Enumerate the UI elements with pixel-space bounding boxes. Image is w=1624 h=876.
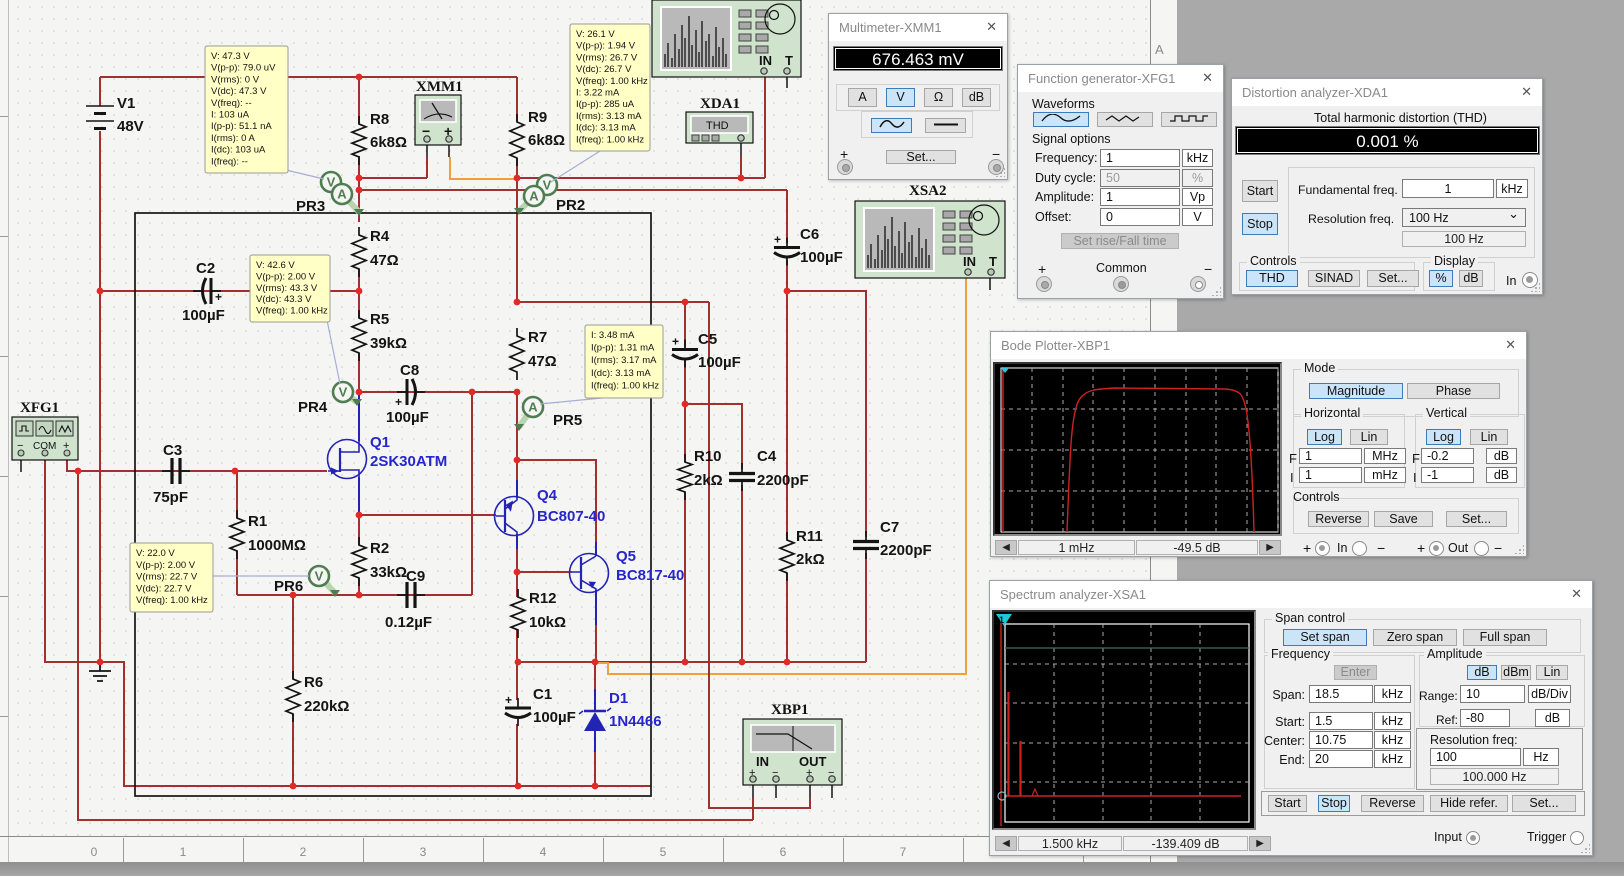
zone label A [1155, 42, 1164, 57]
svg-text:+: + [395, 395, 402, 409]
wire R11 bottom [786, 573, 788, 662]
svg-text:T: T [989, 254, 997, 269]
svg-text:V: V [339, 385, 348, 400]
black boundary box [135, 213, 651, 796]
capacitor C4 [729, 448, 809, 491]
wire D1 top [594, 662, 596, 689]
svg-text:2kΩ: 2kΩ [694, 472, 723, 489]
wire R6 top [292, 595, 294, 679]
svg-text:BC807-40: BC807-40 [537, 508, 605, 525]
svg-text:R7: R7 [528, 329, 547, 346]
svg-text:6k8Ω: 6k8Ω [370, 134, 407, 151]
wire R9 bottom / PR2 drop [516, 158, 518, 302]
svg-text:R6: R6 [304, 674, 323, 691]
bottom scrollbar strip [0, 862, 1624, 876]
junction (518,786) [515, 783, 522, 790]
wire R4 bottom to R5 [358, 269, 360, 318]
wire Q4 to R12 [516, 549, 518, 597]
svg-text:XDA1: XDA1 [700, 96, 740, 112]
junction (293,595) [290, 592, 297, 599]
wire C4 bottom [741, 485, 743, 662]
svg-text:+: + [215, 290, 222, 304]
junction (359,190) [356, 187, 363, 194]
svg-text:C9: C9 [406, 568, 425, 585]
svg-text:XFG1: XFG1 [20, 400, 59, 416]
svg-text:Q4: Q4 [537, 487, 558, 504]
wire XMM1 plus orange [450, 157, 517, 179]
wire XBP1 IN drop [752, 798, 754, 820]
wire XBP1 OUT- stub [831, 785, 833, 798]
wire C5 bottom [684, 360, 686, 404]
wire XDA1 stub [740, 141, 742, 156]
svg-text:V(rms): 26.7 V: V(rms): 26.7 V [576, 52, 638, 63]
svg-text:IN: IN [759, 53, 772, 68]
svg-text:47Ω: 47Ω [370, 252, 399, 269]
wire XBP1 IN feed [78, 471, 753, 820]
svg-text:R9: R9 [528, 109, 547, 126]
ground symbol [89, 662, 111, 681]
svg-text:1N4466: 1N4466 [609, 713, 662, 730]
svg-text:C1: C1 [533, 686, 552, 703]
svg-text:I: 3.48 mA: I: 3.48 mA [591, 330, 635, 341]
probe PR3 [296, 172, 364, 216]
svg-text:100µF: 100µF [800, 249, 843, 266]
junction (517,302) [514, 299, 521, 306]
capacitor C5 [672, 331, 741, 371]
wire R12 bottom [516, 630, 518, 662]
resistor R5 [352, 310, 407, 361]
junction (359,595) [356, 592, 363, 599]
schematic sheet [0, 0, 1177, 862]
wire R8 bottom to R4 top [358, 156, 360, 222]
wire C7 bottom [865, 553, 867, 662]
svg-text:2kΩ: 2kΩ [796, 551, 825, 568]
wire Q5 collector lead [595, 542, 597, 556]
resistor R11 [780, 528, 825, 581]
wire R9 top [516, 77, 518, 122]
probe PR6 [274, 566, 340, 597]
wire node XMM- line [359, 177, 427, 179]
junction (359,392) [356, 389, 363, 396]
junction (787,662) [784, 659, 791, 666]
junction (100,662) [97, 659, 104, 666]
svg-text:THD: THD [706, 120, 729, 132]
svg-text:R8: R8 [370, 111, 389, 128]
svg-text:V(rms): 22.7 V: V(rms): 22.7 V [136, 572, 198, 583]
svg-text:IN: IN [756, 754, 769, 769]
junction (517,460) [514, 457, 521, 464]
measurement tooltip PR4 [250, 255, 330, 322]
svg-text:T: T [785, 53, 793, 68]
wire stub [786, 242, 788, 244]
svg-text:A: A [529, 189, 539, 204]
window Multimeter-XMM1 [828, 13, 1008, 180]
resistor R8 [352, 111, 407, 165]
probe PR4 [298, 382, 362, 416]
wire XFG1 COM to ground [45, 455, 100, 662]
svg-text:C8: C8 [400, 362, 419, 379]
wire C8 line [359, 391, 517, 393]
transistor Q5 BC817-40 (NPN) [570, 548, 685, 593]
svg-text:V(dc): 22.7 V: V(dc): 22.7 V [136, 583, 192, 594]
resistor R12 [511, 589, 566, 638]
wire R1 bottom [236, 551, 238, 595]
wire node to XDA1/XSA1 [517, 177, 765, 179]
capacitor C6 [774, 226, 843, 266]
svg-text:I(rms): 0 A: I(rms): 0 A [211, 133, 255, 144]
wire XMM1 minus drop [426, 157, 428, 178]
junction (517,392) [514, 389, 521, 396]
svg-text:PR3: PR3 [296, 198, 325, 215]
svg-text:V(p-p): 2.00 V: V(p-p): 2.00 V [256, 271, 316, 282]
svg-text:39kΩ: 39kΩ [370, 335, 407, 352]
svg-text:A: A [528, 400, 538, 415]
wire C9 line [237, 594, 472, 596]
svg-text:PR6: PR6 [274, 578, 303, 595]
svg-text:I: 3.22 mA: I: 3.22 mA [576, 88, 620, 99]
measurement tooltip PR3 [205, 46, 288, 173]
svg-text:V1: V1 [117, 95, 135, 112]
wire Q1 drain [358, 392, 360, 441]
wire C4 top link [685, 404, 742, 469]
wire XSA1 IN drop [764, 77, 766, 178]
svg-text:I(p-p): 1.31 mA: I(p-p): 1.31 mA [591, 343, 655, 354]
tooltip connector PR5 [540, 397, 612, 404]
resistor R9 [510, 109, 565, 166]
instrument icon XMM1 [415, 95, 461, 145]
wire R6 bottom [292, 714, 294, 786]
window Function generator-XFG1 [1017, 64, 1224, 299]
svg-text:I(freq): 1.00 kHz: I(freq): 1.00 kHz [591, 380, 659, 391]
svg-text:V(freq): --: V(freq): -- [211, 98, 252, 109]
svg-text:XSA2: XSA2 [909, 183, 947, 199]
wire ground rail bottom [100, 662, 651, 786]
svg-text:I(freq): 1.00 kHz: I(freq): 1.00 kHz [576, 134, 644, 145]
junction (685,662) [682, 659, 689, 666]
svg-text:I(p-p): 285 uA: I(p-p): 285 uA [576, 99, 635, 110]
wire C5 top [684, 302, 686, 347]
wire XSA1 IN stub [764, 74, 766, 77]
junction (685,404) [682, 401, 689, 408]
svg-text:0.12µF: 0.12µF [385, 614, 432, 631]
svg-text:PR4: PR4 [298, 399, 328, 416]
junction (685,302) [682, 299, 689, 306]
svg-text:+: + [774, 233, 781, 247]
svg-text:R11: R11 [796, 528, 823, 545]
svg-text:V(dc): 43.3 V: V(dc): 43.3 V [256, 294, 312, 305]
capacitor C9 [385, 568, 432, 631]
svg-text:V(p-p): 1.94 V: V(p-p): 1.94 V [576, 41, 636, 52]
svg-text:PR5: PR5 [553, 412, 582, 429]
svg-text:10kΩ: 10kΩ [529, 614, 566, 631]
wire C6 top lead [786, 190, 788, 243]
svg-text:R5: R5 [370, 311, 389, 328]
svg-text:100µF: 100µF [533, 709, 576, 726]
wire C2 line [100, 290, 359, 292]
instrument icon XSA2 icon [855, 201, 1005, 278]
junction (78,471) [75, 468, 82, 475]
svg-text:D1: D1 [609, 690, 628, 707]
capacitor C2 [182, 260, 225, 324]
svg-text:V(dc): 26.7 V: V(dc): 26.7 V [576, 64, 632, 75]
junction (742,662) [739, 659, 746, 666]
svg-text:V: V [315, 569, 324, 584]
wire XSA2 IN orange [597, 276, 966, 674]
probe PR2 [514, 175, 585, 215]
diode D1 1N4466 [579, 690, 662, 731]
measurement tooltip PR6 [130, 543, 213, 612]
resistor R4 [352, 227, 399, 277]
svg-text:C2: C2 [196, 260, 215, 277]
svg-text:A: A [337, 187, 347, 202]
tooltip connector PR2 [551, 151, 600, 182]
svg-text:2200pF: 2200pF [757, 472, 809, 489]
wire D1 bottom [594, 752, 596, 786]
svg-text:I(freq): --: I(freq): -- [211, 156, 248, 167]
svg-text:V(p-p): 79.0 uV: V(p-p): 79.0 uV [211, 63, 276, 74]
wire XBP1 OUT+ stub [809, 785, 811, 798]
svg-text:XBP1: XBP1 [771, 702, 809, 718]
junction (595,786) [592, 783, 599, 790]
svg-text:100µF: 100µF [386, 409, 429, 426]
svg-text:48V: 48V [117, 118, 144, 135]
resistor R1 [230, 510, 306, 559]
svg-text:2200pF: 2200pF [880, 542, 932, 559]
wire C3 input line [78, 470, 327, 472]
svg-text:R4: R4 [370, 228, 390, 245]
wire R11 top [786, 291, 788, 540]
tooltip connector PR6 [213, 575, 309, 577]
wire XBP1 IN+ stub [752, 785, 754, 798]
wire PR5 drop to Q4 [516, 392, 518, 480]
svg-text:V: 26.1 V: V: 26.1 V [576, 29, 615, 40]
svg-text:Q1: Q1 [370, 434, 390, 451]
svg-text:I(dc): 103 uA: I(dc): 103 uA [211, 145, 266, 156]
junction (741,178) [738, 175, 745, 182]
wire Q5 collector link [517, 460, 596, 542]
wire R1 top [236, 471, 238, 518]
svg-text:1: 1 [999, 615, 1004, 625]
svg-text:PR2: PR2 [556, 197, 585, 214]
wire Q5 base line [517, 571, 572, 573]
wire V+ top rail [100, 76, 517, 78]
junction (517,178) [514, 175, 521, 182]
svg-text:100µF: 100µF [698, 354, 741, 371]
svg-text:I(dc): 3.13 mA: I(dc): 3.13 mA [591, 368, 651, 379]
wire battery top lead [99, 77, 101, 106]
wire R8 top [358, 77, 360, 124]
svg-text:R12: R12 [529, 590, 557, 607]
resistor R10 [678, 448, 723, 500]
junction (235,471) [232, 468, 239, 475]
junction (359,515) [356, 512, 363, 519]
svg-text:I(rms): 3.17 mA: I(rms): 3.17 mA [591, 355, 657, 366]
wire Q4 base line [359, 514, 496, 516]
junction (595,662) [592, 659, 599, 666]
wire XMM1 plus stub [448, 142, 450, 157]
battery V1 48V [86, 95, 144, 135]
svg-text:R2: R2 [370, 540, 389, 557]
resistor R2 [352, 537, 407, 586]
svg-text:XMM1: XMM1 [416, 79, 463, 95]
svg-text:+: + [505, 693, 512, 707]
transistor Q1 2SK30ATM (JFET) [328, 434, 448, 479]
svg-text:V(freq): 1.00 kHz: V(freq): 1.00 kHz [136, 595, 208, 606]
wire C1 bottom [516, 724, 518, 786]
wire D1 top blue [594, 689, 596, 711]
instrument icon XSA1 icon [652, 0, 801, 77]
svg-text:220kΩ: 220kΩ [304, 698, 349, 715]
svg-text:6k8Ω: 6k8Ω [528, 132, 565, 149]
wire C8-C9 link [471, 392, 473, 595]
wire C7 top link [787, 291, 866, 537]
wire R2 top [358, 515, 360, 545]
svg-text:V(freq): 1.00 kHz: V(freq): 1.00 kHz [256, 306, 328, 317]
junction (787,291) [784, 288, 791, 295]
junction (293,786) [290, 783, 297, 790]
junction (517,572) [514, 569, 521, 576]
svg-text:Q5: Q5 [616, 548, 636, 565]
svg-text:R10: R10 [694, 448, 722, 465]
measurement tooltip PR2 [570, 24, 650, 151]
capacitor C8 [386, 362, 429, 426]
svg-text:IN: IN [963, 254, 976, 269]
transistor Q4 BC807-40 (PNP) [495, 487, 606, 536]
svg-text:R1: R1 [248, 513, 267, 530]
svg-text:I(rms): 3.13 mA: I(rms): 3.13 mA [576, 111, 642, 122]
junction (518,662) [515, 659, 522, 666]
svg-text:V: 47.3 V: V: 47.3 V [211, 51, 250, 62]
wire XDA1 drop [740, 156, 742, 178]
svg-text:1000MΩ: 1000MΩ [248, 537, 306, 554]
svg-text:V(freq): 1.00 kHz: V(freq): 1.00 kHz [576, 76, 648, 87]
junction (472,392) [469, 389, 476, 396]
window Spectrum analyzer-XSA1 [989, 580, 1593, 856]
svg-text:V(dc): 47.3 V: V(dc): 47.3 V [211, 86, 267, 97]
tooltip connector PR4 [327, 320, 340, 384]
svg-text:I(p-p): 51.1 nA: I(p-p): 51.1 nA [211, 121, 272, 132]
resistor R6 [286, 671, 349, 722]
wire Q5 emitter to rail [595, 625, 597, 662]
wire XFG1 minus stub [20, 455, 22, 472]
svg-text:V(rms): 43.3 V: V(rms): 43.3 V [256, 283, 318, 294]
svg-text:I: 103 uA: I: 103 uA [211, 110, 250, 121]
wire XMM1 minus stub [426, 142, 428, 157]
svg-text:C3: C3 [163, 442, 182, 459]
window Distortion analyzer-XDA1 [1231, 78, 1543, 295]
wire R10 bottom [684, 492, 686, 662]
wire C6 bottom [786, 260, 788, 291]
window Bode Plotter-XBP1 [990, 331, 1527, 557]
svg-text:OUT: OUT [799, 754, 827, 769]
svg-text:I(dc): 3.13 mA: I(dc): 3.13 mA [576, 123, 636, 134]
wire output node line [517, 301, 709, 303]
wire R2 bottom [358, 578, 360, 595]
junction (359,291) [356, 288, 363, 295]
svg-text:V: V [543, 178, 552, 193]
svg-text:C7: C7 [880, 519, 899, 536]
capacitor C1 [505, 686, 576, 726]
junction (359,77) [356, 74, 363, 81]
capacitor C3 [153, 442, 190, 506]
wire Q4 collector lead [516, 534, 518, 549]
wire XBP1 OUT feed [709, 302, 810, 808]
wire XSA1 T stub [786, 74, 788, 88]
svg-text:100µF: 100µF [182, 307, 225, 324]
svg-text:V(rms): 0 V: V(rms): 0 V [211, 74, 260, 85]
wire D1 bottom blue [594, 731, 596, 752]
measurement tooltip PR5 [585, 325, 663, 398]
wire mid rail [518, 661, 866, 663]
instrument icon XFG1 [12, 417, 78, 460]
wire battery negative down [99, 131, 101, 662]
svg-text:33kΩ: 33kΩ [370, 564, 407, 581]
instrument icon XDA1 [686, 112, 753, 143]
wire R10 top [684, 404, 686, 462]
wire XSA2 T stub [989, 276, 991, 290]
junction (100,291) [97, 288, 104, 295]
svg-text:C6: C6 [800, 226, 819, 243]
svg-text:C5: C5 [698, 331, 717, 348]
instrument icon XBP1 [743, 719, 842, 785]
wire Q4 emitter lead [516, 480, 518, 498]
svg-text:2SK30ATM: 2SK30ATM [370, 453, 447, 470]
capacitor C7 [853, 519, 932, 559]
wire Q5 emitter lead [595, 590, 597, 625]
resistor R7 [510, 328, 557, 380]
svg-text:47Ω: 47Ω [528, 353, 557, 370]
svg-text:BC817-40: BC817-40 [616, 567, 684, 584]
wire R5 bottom [358, 353, 360, 392]
wire Q1 source [358, 477, 360, 515]
svg-text:V(p-p): 2.00 V: V(p-p): 2.00 V [136, 560, 196, 571]
svg-text:C4: C4 [757, 448, 777, 465]
svg-text:V: 22.0 V: V: 22.0 V [136, 548, 175, 559]
junction (359,178) [356, 175, 363, 182]
wire XBP1 IN- stub [775, 785, 777, 798]
svg-text:+: + [672, 335, 679, 349]
svg-text:V: 42.6 V: V: 42.6 V [256, 260, 295, 271]
wire C1 top [516, 662, 518, 700]
tooltip connector PR3 [286, 170, 324, 179]
svg-text:75pF: 75pF [153, 489, 188, 506]
probe PR5 [514, 397, 582, 431]
wire XFG1 plus [67, 455, 78, 471]
wire R4-C6 line [359, 189, 787, 191]
